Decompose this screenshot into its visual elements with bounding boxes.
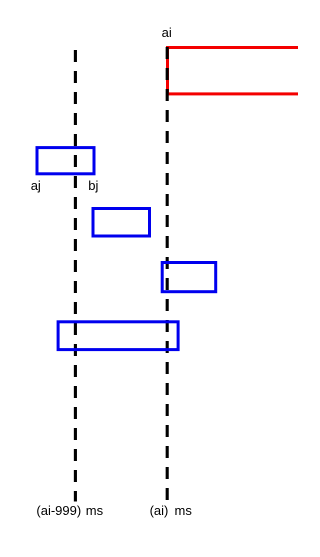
dashed vertical line at (ai) ms — [166, 47, 169, 500]
svg-text:(ai): (ai) — [150, 503, 169, 518]
blue rectangle 2 — [93, 209, 150, 237]
dashed vertical line at (ai-999) ms — [74, 50, 77, 502]
svg-text:ms: ms — [86, 503, 104, 518]
svg-text:ai: ai — [162, 25, 172, 40]
blue rectangle 1 (interval aj-bj) — [37, 148, 94, 174]
svg-text:bj: bj — [88, 178, 98, 193]
red interval rectangle (event ai window) — [168, 48, 314, 94]
blue rectangle 3 — [162, 263, 216, 292]
blue rectangle 4 (long interval) — [58, 322, 178, 350]
svg-text:(ai-999): (ai-999) — [36, 503, 81, 518]
svg-text:ms: ms — [175, 503, 193, 518]
svg-text:aj: aj — [31, 178, 41, 193]
